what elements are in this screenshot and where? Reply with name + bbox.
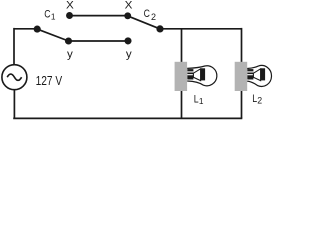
switch C2 pole dot: [156, 25, 163, 32]
wire bottom rail: [13, 117, 242, 119]
svg-text:y: y: [126, 49, 132, 61]
wire middle y-y: [69, 40, 129, 42]
lamp L1 socket: [175, 62, 188, 91]
wire lamp L1 riser top: [181, 29, 183, 63]
svg-text:y: y: [67, 49, 73, 61]
svg-text:C: C: [144, 8, 150, 20]
wire left feed (source to C1 pole): [14, 28, 37, 30]
wire lamp L2 riser top: [241, 28, 243, 63]
switch C1 blade: [37, 29, 68, 41]
switch C2 blade: [128, 16, 160, 29]
svg-text:1: 1: [199, 96, 204, 106]
lamp L2 bulb: [247, 65, 271, 86]
wire right feed (C2 pole to lamps): [160, 28, 242, 30]
svg-text:2: 2: [257, 96, 262, 106]
switch C2 throw y dot: [124, 37, 131, 44]
svg-text:1: 1: [51, 11, 56, 21]
wire top X-X: [70, 15, 128, 17]
svg-text:C: C: [44, 8, 50, 20]
switch C1 pole dot: [34, 26, 41, 33]
wire lamp L2 riser bottom: [241, 91, 243, 119]
switch C1 throw y dot: [65, 37, 72, 44]
svg-text:2: 2: [151, 12, 156, 22]
switch C1 throw X dot: [66, 12, 73, 19]
AC source V1 127 V: [2, 65, 27, 90]
svg-text:X: X: [66, 0, 74, 12]
lamp L2 socket: [235, 62, 248, 91]
svg-text:X: X: [125, 0, 133, 12]
svg-text:127 V: 127 V: [36, 74, 63, 88]
wire left rail lower: [13, 90, 15, 119]
wire lamp L1 riser bottom: [181, 91, 183, 119]
wire left rail upper: [13, 28, 15, 65]
lamp L1 bulb: [187, 66, 217, 86]
switch C2 throw X dot: [124, 12, 131, 19]
